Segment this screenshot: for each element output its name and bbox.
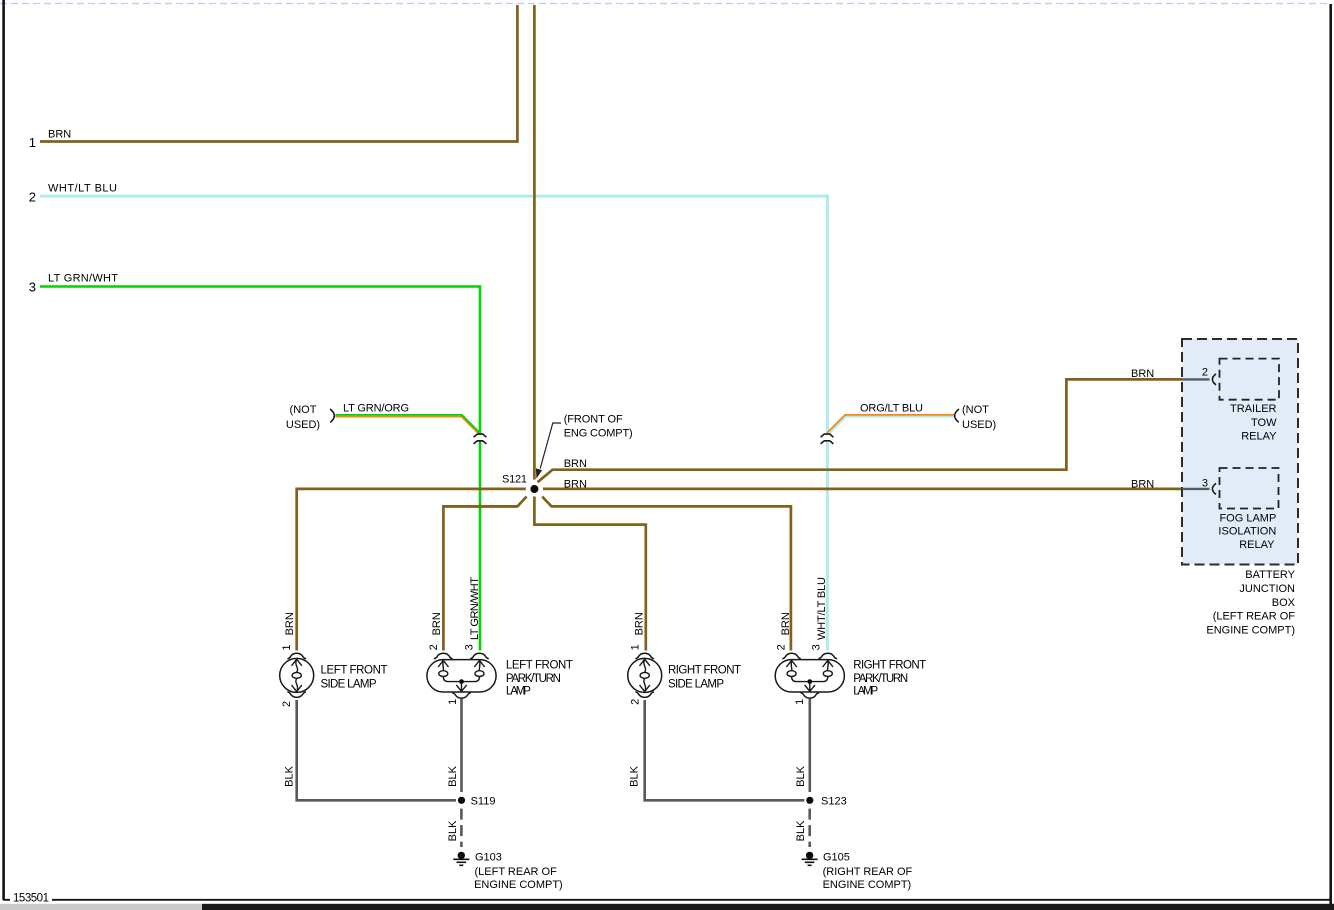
svg-text:RELAY: RELAY bbox=[1239, 539, 1275, 551]
svg-text:LEFT FRONT: LEFT FRONT bbox=[321, 665, 388, 677]
svg-text:ENGINE COMPT): ENGINE COMPT) bbox=[823, 879, 912, 891]
svg-text:(LEFT REAR OF: (LEFT REAR OF bbox=[1213, 611, 1296, 623]
pin 2 label trailer tow relay bbox=[1202, 367, 1208, 379]
connector pin 2 trailer tow relay bbox=[1212, 374, 1216, 385]
svg-text:S121: S121 bbox=[502, 474, 527, 486]
wire BRN circuit 1 bbox=[40, 5, 517, 142]
label G105 (RIGHT REAR OF ENGINE COMPT) bbox=[823, 852, 913, 892]
svg-text:3: 3 bbox=[29, 280, 36, 295]
label BRN at relay pin 2 bbox=[1131, 368, 1154, 380]
connector (not used) ORG/LT BLU bbox=[955, 409, 959, 422]
svg-text:2: 2 bbox=[629, 699, 641, 705]
svg-text:BLK: BLK bbox=[629, 765, 641, 786]
svg-text:ISOLATION: ISOLATION bbox=[1218, 526, 1276, 538]
wire internal BJB to pin 2 bbox=[1182, 378, 1210, 380]
splice S121 dot bbox=[530, 485, 538, 493]
left front park/turn lamp filament common down arrow bbox=[456, 682, 466, 692]
wire internal BJB to pin 3 bbox=[1182, 488, 1210, 490]
battery junction box bbox=[1182, 339, 1298, 565]
svg-text:LT GRN/ORG: LT GRN/ORG bbox=[343, 403, 409, 415]
svg-text:S123: S123 bbox=[821, 795, 847, 807]
svg-text:3: 3 bbox=[810, 644, 822, 650]
wire BRN S121 to fog lamp isolation relay pin 3 bbox=[543, 488, 1183, 491]
svg-text:BOX: BOX bbox=[1272, 597, 1296, 609]
right front park/turn lamp connector pin 3 top bbox=[819, 653, 838, 658]
svg-text:ENGINE COMPT): ENGINE COMPT) bbox=[1206, 624, 1295, 636]
wire BLK dashed S119 to G103 bbox=[460, 809, 463, 847]
label BATTERY JUNCTION BOX bbox=[1206, 569, 1295, 636]
svg-text:RIGHT FRONT: RIGHT FRONT bbox=[853, 660, 926, 672]
svg-text:SIDE LAMP: SIDE LAMP bbox=[321, 679, 377, 691]
wire BLK left park/turn lamp to S119 bbox=[460, 699, 463, 793]
svg-text:2: 2 bbox=[428, 644, 440, 650]
svg-text:ORG/LT BLU: ORG/LT BLU bbox=[860, 403, 923, 415]
left front park/turn lamp connector pin 1 bottom bbox=[452, 693, 471, 698]
left front side lamp bulb outline bbox=[280, 658, 314, 692]
svg-text:USED): USED) bbox=[286, 419, 320, 431]
left front park/turn lamp housing outline bbox=[427, 660, 496, 692]
pin 3 left front park/turn lamp bbox=[463, 644, 475, 650]
svg-text:1: 1 bbox=[281, 645, 293, 651]
pin 2 left front park/turn lamp bbox=[428, 644, 440, 650]
pin 2 right front side lamp bbox=[629, 699, 641, 705]
svg-text:1: 1 bbox=[29, 135, 36, 150]
label (FRONT OF ENG COMPT) bbox=[564, 414, 633, 440]
break symbol right (in-line option break) bbox=[821, 434, 834, 444]
label ORG/LT BLU bbox=[860, 403, 923, 415]
left front park/turn lamp filament left bbox=[438, 660, 461, 681]
label BLK S119 to G103 bbox=[447, 820, 459, 841]
svg-text:2: 2 bbox=[29, 190, 36, 205]
pin 3 label fog lamp isolation relay bbox=[1202, 478, 1208, 490]
connector (not used) LT GRN/ORG bbox=[330, 409, 334, 422]
svg-text:WHT/LT BLU: WHT/LT BLU bbox=[48, 183, 117, 195]
label TRAILER TOW RELAY bbox=[1230, 403, 1277, 443]
svg-text:(NOT: (NOT bbox=[962, 404, 989, 416]
svg-text:BRN: BRN bbox=[48, 129, 71, 141]
right front side lamp filament bbox=[640, 659, 650, 691]
break symbol left (in-line option break) bbox=[474, 434, 487, 444]
right front park/turn lamp filament right bbox=[810, 660, 833, 681]
wire BRN S121 to left front side lamp pin 1 bbox=[297, 489, 526, 651]
svg-text:BATTERY: BATTERY bbox=[1245, 569, 1295, 581]
svg-text:1: 1 bbox=[629, 644, 641, 650]
svg-text:G105: G105 bbox=[823, 852, 850, 864]
svg-text:S119: S119 bbox=[471, 795, 496, 807]
ground G105 bbox=[802, 852, 818, 866]
wire LT GRN/ORG bbox=[336, 415, 481, 434]
svg-text:WHT/LT BLU: WHT/LT BLU bbox=[816, 577, 828, 640]
svg-text:BRN: BRN bbox=[284, 612, 296, 635]
pin 1 left front side lamp bbox=[281, 645, 293, 651]
label (NOT USED) left bbox=[286, 404, 320, 431]
left front park/turn lamp connector pin 2 top bbox=[434, 653, 453, 658]
wire LT GRN/WHT circuit 3 bbox=[40, 287, 480, 651]
label BRN circuit 1 bbox=[48, 129, 71, 141]
label BRN pin1 left side lamp bbox=[284, 612, 296, 635]
wire BRN S121 to right front park/turn lamp pin 2 bbox=[542, 497, 791, 651]
svg-text:LAMP: LAMP bbox=[506, 686, 531, 698]
svg-text:FOG LAMP: FOG LAMP bbox=[1219, 512, 1276, 524]
right front park/turn lamp connector pin 1 bottom bbox=[801, 693, 820, 698]
wire WHT/LT BLU circuit 2 bbox=[40, 196, 827, 650]
label LT GRN/ORG bbox=[343, 403, 409, 415]
svg-text:BRN: BRN bbox=[431, 612, 443, 635]
label BRN pin2 left park/turn lamp bbox=[431, 612, 443, 635]
svg-text:2: 2 bbox=[281, 701, 293, 707]
wire BLK dashed S123 to G105 bbox=[808, 809, 811, 847]
svg-text:2: 2 bbox=[1202, 367, 1208, 379]
right front side lamp bulb outline bbox=[628, 658, 662, 692]
svg-text:BLK: BLK bbox=[447, 820, 459, 841]
node 3 label bbox=[29, 280, 36, 295]
pin 1 right front side lamp bbox=[629, 644, 641, 650]
left front park/turn lamp connector pin 3 top bbox=[470, 653, 489, 658]
node 2 label bbox=[29, 190, 36, 205]
splice S119 dot bbox=[458, 797, 465, 804]
svg-text:USED): USED) bbox=[962, 419, 996, 431]
svg-text:LAMP: LAMP bbox=[853, 686, 878, 698]
pin 1 left front park/turn lamp bbox=[447, 699, 459, 705]
bottom scrollbar dark segment bbox=[202, 904, 1334, 910]
left front side lamp connector pin top bbox=[287, 653, 306, 658]
diagram id 153501 bbox=[10, 892, 52, 905]
left front park/turn lamp common junction dot bbox=[459, 679, 464, 684]
label S123 bbox=[821, 795, 847, 807]
label S119 bbox=[471, 795, 496, 807]
wire BLK left side lamp to S119 bbox=[297, 700, 456, 800]
trailer tow relay box bbox=[1220, 359, 1280, 400]
left front side lamp filament bbox=[292, 659, 302, 691]
label RIGHT FRONT SIDE LAMP bbox=[668, 665, 741, 691]
label FOG LAMP ISOLATION RELAY bbox=[1218, 512, 1276, 551]
wire BRN S121 to right front side lamp pin 1 bbox=[534, 497, 645, 651]
label BRN pin2 right park/turn lamp bbox=[780, 612, 792, 635]
label LT GRN/WHT pin3 left park/turn lamp bbox=[469, 577, 481, 640]
label BRN pin1 right side lamp bbox=[633, 612, 645, 635]
label WHT/LT BLU circuit 2 bbox=[48, 183, 117, 195]
pin 3 right front park/turn lamp bbox=[810, 644, 822, 650]
label BRN at relay pin 3 bbox=[1131, 479, 1154, 491]
svg-text:BRN: BRN bbox=[564, 458, 587, 470]
frame bottom border bbox=[3, 899, 1332, 901]
ground G103 bbox=[453, 852, 469, 866]
svg-text:G103: G103 bbox=[475, 852, 502, 864]
label RIGHT FRONT PARK/TURN LAMP bbox=[853, 660, 926, 698]
right front park/turn lamp connector pin 2 top bbox=[782, 653, 801, 658]
right front park/turn lamp common junction dot bbox=[807, 679, 812, 684]
label LT GRN/WHT circuit 3 bbox=[48, 273, 118, 285]
svg-text:1: 1 bbox=[794, 699, 806, 705]
svg-text:BLK: BLK bbox=[795, 765, 807, 786]
svg-text:1: 1 bbox=[447, 699, 459, 705]
node 1 label bbox=[29, 135, 36, 150]
label BLK S123 to G105 bbox=[795, 820, 807, 841]
svg-text:LEFT FRONT: LEFT FRONT bbox=[506, 660, 573, 672]
svg-text:BRN: BRN bbox=[1131, 479, 1154, 491]
frame right border bbox=[1329, 4, 1332, 910]
label LEFT FRONT SIDE LAMP bbox=[321, 665, 388, 691]
splice S123 dot bbox=[806, 797, 813, 804]
pin 2 left front side lamp bbox=[281, 701, 293, 707]
leader arrow to S121 bbox=[536, 423, 561, 477]
svg-text:LT GRN/WHT: LT GRN/WHT bbox=[48, 273, 118, 285]
left front park/turn lamp filament right bbox=[462, 660, 485, 681]
svg-text:ENG COMPT): ENG COMPT) bbox=[564, 427, 633, 439]
svg-text:JUNCTION: JUNCTION bbox=[1239, 583, 1295, 595]
right front side lamp connector pin bottom bbox=[635, 692, 654, 697]
svg-text:BLK: BLK bbox=[284, 765, 296, 786]
svg-text:BRN: BRN bbox=[633, 612, 645, 635]
svg-text:(NOT: (NOT bbox=[290, 404, 317, 416]
svg-text:BRN: BRN bbox=[780, 612, 792, 635]
svg-text:LT GRN/WHT: LT GRN/WHT bbox=[469, 577, 481, 640]
svg-text:(RIGHT REAR OF: (RIGHT REAR OF bbox=[823, 866, 913, 878]
right front park/turn lamp filament left bbox=[786, 660, 809, 681]
wire BLK right park/turn lamp to S123 bbox=[808, 699, 811, 793]
bottom scrollbar light segment bbox=[0, 904, 202, 910]
svg-text:RELAY: RELAY bbox=[1241, 431, 1277, 443]
right front park/turn lamp housing outline bbox=[775, 660, 844, 692]
frame left border bbox=[2, 0, 5, 900]
label BRN (top feed to trailer tow relay) bbox=[564, 458, 587, 470]
svg-text:(FRONT OF: (FRONT OF bbox=[564, 414, 623, 426]
label LEFT FRONT PARK/TURN LAMP bbox=[506, 660, 573, 698]
svg-text:TRAILER: TRAILER bbox=[1230, 403, 1277, 415]
label BLK right side lamp bbox=[629, 765, 641, 786]
svg-text:TOW: TOW bbox=[1251, 417, 1277, 429]
connector pin 3 fog lamp isolation relay bbox=[1212, 483, 1216, 494]
label (NOT USED) right bbox=[962, 404, 996, 431]
wire BRN from top to S121 bbox=[533, 5, 536, 480]
svg-text:2: 2 bbox=[775, 644, 787, 650]
svg-text:153501: 153501 bbox=[13, 893, 49, 905]
svg-text:PARK/TURN: PARK/TURN bbox=[506, 673, 561, 685]
svg-text:SIDE LAMP: SIDE LAMP bbox=[668, 679, 724, 691]
svg-text:BRN: BRN bbox=[1131, 368, 1154, 380]
label BLK right park/turn lamp bbox=[795, 765, 807, 786]
label BLK left park/turn lamp bbox=[447, 765, 459, 786]
pin 2 right front park/turn lamp bbox=[775, 644, 787, 650]
svg-text:RIGHT FRONT: RIGHT FRONT bbox=[668, 665, 741, 677]
right front park/turn lamp filament common down arrow bbox=[805, 682, 815, 692]
right front side lamp connector pin top bbox=[635, 653, 654, 658]
svg-text:3: 3 bbox=[463, 644, 475, 650]
splice S121 label bbox=[502, 474, 527, 486]
wire ORG/LT BLU bbox=[827, 415, 954, 435]
label G103 (LEFT REAR OF ENGINE COMPT) bbox=[474, 852, 563, 892]
frame top dashed line bbox=[0, 3, 1331, 5]
svg-text:BLK: BLK bbox=[795, 820, 807, 841]
label WHT/LT BLU pin3 right park/turn lamp bbox=[816, 577, 828, 640]
svg-text:(LEFT REAR OF: (LEFT REAR OF bbox=[475, 866, 558, 878]
pin 1 right front park/turn lamp bbox=[794, 699, 806, 705]
label BLK left side lamp bbox=[284, 765, 296, 786]
fog lamp isolation relay box bbox=[1220, 468, 1279, 509]
wire BLK right side lamp to S123 bbox=[645, 700, 805, 800]
svg-text:ENGINE COMPT): ENGINE COMPT) bbox=[474, 879, 563, 891]
svg-text:PARK/TURN: PARK/TURN bbox=[853, 673, 908, 685]
wire BRN S121 to left front park/turn lamp pin 2 bbox=[443, 497, 526, 651]
wire BRN S121 to trailer tow relay pin 2 bbox=[538, 379, 1183, 482]
svg-text:BLK: BLK bbox=[447, 765, 459, 786]
label BRN (feed to fog lamp isolation relay) bbox=[564, 478, 587, 490]
left front side lamp connector pin bottom bbox=[287, 692, 306, 697]
